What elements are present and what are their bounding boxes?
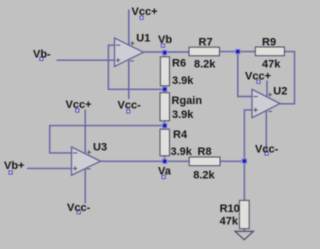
svg-text:Vcc+: Vcc+ — [132, 6, 158, 18]
label anchor square Vcc+ mid-left — [76, 109, 79, 112]
resistor R6 — [160, 57, 169, 86]
resistor R9 — [255, 47, 284, 56]
wire U2 top power pin from Vcc+ label — [266, 81, 268, 97]
node R7/R9 junction — [236, 49, 241, 54]
wire R7 to R9 — [220, 51, 256, 53]
node R6/Rgain junction — [162, 87, 167, 92]
svg-text:3.9k: 3.9k — [172, 75, 194, 87]
wire U3 bottom power pin to Vcc- — [84, 169, 86, 204]
wire U3 output to R8 — [101, 160, 190, 162]
ground — [235, 231, 253, 240]
wire Vcc+ to U1 top power pin — [128, 10, 130, 46]
label anchor square Vcc+ U2 — [257, 80, 260, 83]
svg-text:U1: U1 — [136, 32, 150, 44]
resistor Rgain — [160, 93, 170, 121]
svg-text:47k: 47k — [262, 59, 281, 71]
node Va junction — [162, 159, 167, 164]
op-amp U2 — [252, 89, 280, 118]
svg-text:Vcc+: Vcc+ — [245, 71, 271, 83]
svg-text:3.9k: 3.9k — [171, 146, 193, 158]
wire Vb node to R6 top — [164, 52, 166, 57]
resistor R10 — [239, 200, 249, 228]
wire U1 bottom power pin to Vcc- — [128, 60, 130, 99]
svg-text:Vb+: Vb+ — [4, 160, 24, 172]
wire R6 bottom to Rgain top — [164, 86, 166, 93]
svg-text:8.2k: 8.2k — [194, 59, 216, 71]
wire R10 bottom to ground — [243, 229, 245, 232]
wire Vcc+ to U3 top power pin — [84, 110, 86, 154]
svg-text:47k: 47k — [220, 216, 239, 228]
resistor R4 — [160, 129, 170, 156]
node R8/R10/U2+ junction — [242, 159, 247, 164]
node Vb junction — [162, 50, 167, 55]
label anchor square Vcc- U2 bottom — [265, 152, 268, 155]
svg-text:Vcc-: Vcc- — [255, 143, 279, 155]
svg-text:Va: Va — [158, 166, 172, 178]
node Rgain/R4 junction — [162, 123, 167, 128]
wire U2 bottom power to Vcc- — [265, 111, 267, 152]
wire node to U2 - input — [238, 52, 252, 97]
resistor R8 — [189, 157, 220, 166]
wire U1 output to R7 — [144, 51, 190, 53]
label anchor square Vcc- mid — [127, 110, 130, 113]
wire R8 to node — [220, 160, 244, 162]
svg-text:R10: R10 — [220, 203, 240, 215]
resistor R7 — [189, 47, 220, 56]
label anchor square Vb — [161, 44, 164, 47]
label anchor square Vcc+ top — [140, 16, 143, 19]
svg-text:R4: R4 — [173, 129, 188, 141]
label anchor square Va — [162, 175, 165, 178]
svg-text:R6: R6 — [172, 58, 186, 70]
svg-text:Vb: Vb — [158, 34, 172, 46]
wire Rgain bottom to R4 top — [164, 121, 166, 129]
svg-text:Vcc-: Vcc- — [67, 202, 91, 214]
wire R9 to feedback corner down to U2 output — [280, 52, 295, 104]
svg-text:R9: R9 — [262, 37, 276, 49]
label anchor square Vb+ — [9, 171, 12, 174]
wire U3 - input feedback to Rgain/R4 node — [50, 126, 165, 153]
svg-text:Rgain: Rgain — [172, 95, 203, 107]
svg-text:Vcc-: Vcc- — [118, 100, 142, 112]
wire Vb- to U1 + input — [57, 59, 115, 61]
wire Vb+ to U3 + input — [27, 167, 72, 169]
wire U1 - input feedback to R6/Rgain node — [108, 45, 164, 89]
svg-text:U3: U3 — [93, 142, 107, 154]
svg-text:U2: U2 — [273, 85, 287, 97]
wire R4 bottom to Va node — [164, 156, 166, 162]
svg-text:R7: R7 — [199, 37, 213, 49]
svg-text:R8: R8 — [198, 146, 212, 158]
op-amp U3 — [72, 147, 101, 175]
svg-text:Vcc+: Vcc+ — [66, 99, 92, 111]
wire U2 + input left and down to R10 — [244, 110, 252, 200]
op-amp U1 — [115, 38, 144, 67]
svg-text:3.9k: 3.9k — [172, 109, 194, 121]
label anchor square Vb- — [40, 57, 43, 60]
label anchor square Vcc- U3 bottom — [77, 211, 80, 214]
svg-text:Vb-: Vb- — [33, 49, 51, 61]
svg-text:8.2k: 8.2k — [193, 170, 215, 182]
